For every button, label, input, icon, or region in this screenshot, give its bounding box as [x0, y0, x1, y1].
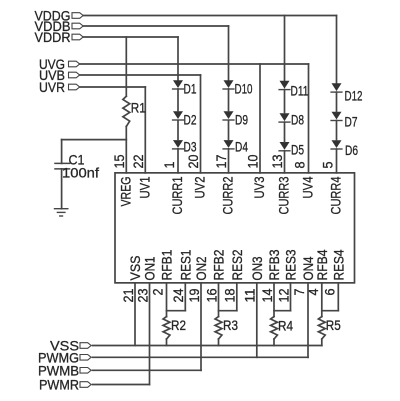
svg-text:CURR4: CURR4: [328, 176, 344, 214]
svg-text:D4: D4: [235, 139, 248, 155]
wire RES4-RFB4 staple: [322, 310, 339, 312]
svg-text:1: 1: [161, 161, 177, 168]
diode D1: [173, 80, 183, 88]
diode D9: [224, 111, 234, 119]
connector PWMG: [80, 355, 91, 361]
svg-text:D3: D3: [184, 139, 197, 155]
wire D8-D5: [284, 122, 286, 142]
svg-text:18: 18: [222, 288, 238, 302]
svg-text:14: 14: [259, 288, 275, 302]
wire VDDG rail: [83, 15, 336, 17]
svg-text:R3: R3: [223, 317, 238, 333]
svg-text:CURR1: CURR1: [169, 176, 185, 214]
wire C1 node horizontal: [62, 139, 127, 141]
svg-text:16: 16: [203, 288, 219, 302]
wire VDDR rail: [83, 36, 178, 38]
capacitor C1: [55, 162, 70, 164]
wire ON2 to PWMB: [200, 283, 202, 370]
svg-text:24: 24: [170, 288, 186, 302]
wire R2 to VSS rail: [166, 339, 168, 346]
connector UVB: [69, 72, 80, 78]
connector VDDB: [72, 23, 83, 29]
svg-text:D8: D8: [291, 112, 304, 128]
wire VDDG to D12: [336, 16, 338, 84]
svg-text:D5: D5: [291, 142, 304, 158]
svg-text:D10: D10: [235, 80, 253, 96]
wire VDDB rail: [83, 25, 228, 27]
connector VDDR: [72, 34, 83, 40]
resistor R2: [163, 317, 170, 339]
connector VDDG: [72, 13, 83, 19]
diode D4: [224, 140, 234, 148]
wire RES2 drop: [236, 283, 238, 311]
svg-text:CURR2: CURR2: [220, 176, 236, 214]
svg-text:VDDR: VDDR: [35, 29, 71, 45]
wire D3 to CURR1: [177, 149, 179, 173]
diode D12: [332, 83, 342, 91]
svg-text:ON1: ON1: [142, 256, 158, 280]
svg-text:UV1: UV1: [136, 176, 152, 198]
connector UVG: [69, 61, 80, 67]
svg-text:D1: D1: [184, 80, 197, 96]
wire UV2 drop: [200, 75, 202, 173]
svg-text:D12: D12: [345, 88, 363, 104]
wire UVG rail: [80, 63, 309, 65]
wire D2-D3: [177, 120, 179, 140]
svg-text:UV2: UV2: [192, 176, 208, 198]
svg-text:6: 6: [321, 288, 337, 295]
wire D10-D9: [228, 89, 230, 111]
svg-text:RES2: RES2: [229, 249, 245, 280]
wire PWMG rail: [93, 356, 309, 358]
svg-text:R2: R2: [171, 317, 186, 333]
wire C1 to ground: [61, 169, 63, 209]
wire RES4 drop: [337, 283, 339, 311]
diode D7: [332, 112, 342, 120]
resistor R5: [318, 317, 325, 339]
wire D9-D4: [228, 120, 230, 140]
connector UVR: [69, 84, 80, 90]
wire RES1-RFB1 staple: [167, 310, 186, 312]
svg-text:5: 5: [320, 161, 336, 168]
wire ON1 to PWMR: [149, 283, 151, 385]
connector PWMB: [80, 368, 91, 374]
svg-text:VREG: VREG: [117, 177, 133, 207]
diode D6: [332, 140, 342, 148]
wire RFB1 upper: [166, 283, 168, 317]
wire PWMR rail: [93, 384, 150, 386]
diode D10: [224, 80, 234, 88]
svg-text:R5: R5: [326, 317, 341, 333]
wire ON3 to PWMG: [256, 283, 258, 357]
wire VDDR to D1: [177, 37, 179, 80]
svg-text:RES3: RES3: [283, 249, 299, 280]
svg-text:20: 20: [185, 154, 201, 168]
svg-text:2: 2: [150, 288, 166, 295]
wire D11-D8: [284, 90, 286, 114]
wire VDDR to R1: [125, 37, 127, 96]
diode D11: [280, 81, 290, 89]
wire RES3-RFB3 staple: [274, 310, 291, 312]
diode D3: [173, 140, 183, 148]
wire ON4 to PWMG: [307, 283, 309, 357]
svg-text:UV3: UV3: [251, 176, 267, 198]
diode D5: [280, 142, 290, 150]
svg-text:8: 8: [292, 161, 308, 168]
svg-text:D9: D9: [235, 112, 248, 128]
wire RES3 drop: [290, 283, 292, 311]
diode D2: [173, 111, 183, 119]
wire D5 to CURR3: [284, 151, 286, 173]
wire UVR rail: [80, 86, 145, 88]
svg-text:D11: D11: [291, 83, 309, 99]
wire RFB3 upper: [273, 283, 275, 317]
wire UV3 drop: [259, 64, 261, 173]
wire RFB2 upper: [218, 283, 220, 317]
wire RES2-RFB2 staple: [219, 310, 237, 312]
wire UV1 drop: [144, 87, 146, 173]
svg-text:RFB2: RFB2: [211, 249, 227, 280]
svg-text:ON3: ON3: [249, 256, 265, 280]
svg-text:D6: D6: [345, 142, 358, 158]
svg-text:13: 13: [269, 154, 285, 168]
svg-text:15: 15: [111, 154, 127, 168]
wire D7-D6: [336, 121, 338, 141]
svg-text:D7: D7: [345, 114, 358, 130]
resistor R3: [215, 317, 222, 339]
wire D1-D2: [177, 89, 179, 111]
wire D12-D7: [336, 92, 338, 112]
op-amp U1 (LED driver IC body): [115, 173, 355, 283]
svg-text:10: 10: [245, 154, 261, 168]
svg-text:23: 23: [134, 288, 150, 302]
svg-text:11: 11: [242, 288, 258, 302]
wire R4 to VSS rail: [273, 339, 275, 346]
wire PWMB rail: [93, 369, 202, 371]
wire VSS pin drop: [134, 283, 136, 346]
wire R3 to VSS rail: [218, 339, 220, 346]
resistor R4: [271, 317, 278, 339]
svg-text:19: 19: [186, 288, 202, 302]
svg-text:UVR: UVR: [39, 79, 65, 95]
wire RFB4 upper: [321, 283, 323, 317]
svg-text:RFB4: RFB4: [314, 249, 330, 280]
svg-text:UV4: UV4: [300, 176, 316, 198]
diode D8: [280, 113, 290, 121]
svg-text:12: 12: [275, 288, 291, 302]
wire VSS rail: [93, 345, 322, 347]
wire C1 top: [61, 140, 63, 164]
svg-text:22: 22: [130, 154, 146, 168]
wire RES1 drop: [184, 283, 186, 311]
wire VDDB to D10: [228, 26, 230, 80]
svg-text:RFB3: RFB3: [266, 249, 282, 280]
svg-text:ON2: ON2: [193, 256, 209, 280]
resistor R1: [123, 96, 130, 126]
svg-text:R4: R4: [278, 318, 293, 334]
svg-text:RFB1: RFB1: [159, 249, 175, 280]
svg-text:17: 17: [213, 154, 229, 168]
svg-text:R1: R1: [131, 100, 146, 116]
wire R1 to VREG pin: [125, 127, 127, 173]
svg-text:PWMR: PWMR: [39, 377, 79, 393]
ground: [55, 208, 68, 210]
svg-text:RES1: RES1: [177, 249, 193, 280]
wire UV4 drop: [308, 64, 310, 173]
wire R5 to VSS rail: [321, 339, 323, 346]
svg-text:100nf: 100nf: [62, 165, 99, 181]
wire UVB rail: [80, 74, 201, 76]
connector VSS: [80, 343, 91, 349]
connector PWMR: [80, 382, 91, 388]
wire VDDG to D11: [284, 16, 286, 81]
wire D4 to CURR2: [228, 149, 230, 173]
svg-text:CURR3: CURR3: [276, 176, 292, 214]
wire D6 to CURR4: [336, 149, 338, 173]
svg-text:RES4: RES4: [330, 249, 346, 280]
svg-text:D2: D2: [184, 112, 197, 128]
